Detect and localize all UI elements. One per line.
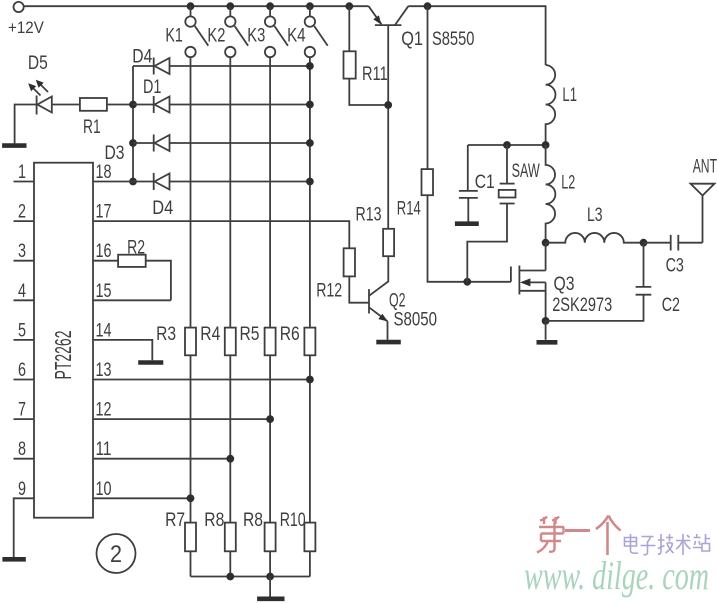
node pin12-K3 — [266, 415, 274, 423]
transistor Q2 S8050 — [349, 256, 388, 340]
svg-text:Q1: Q1 — [401, 29, 423, 50]
pin 17 wire to R12 — [93, 221, 349, 248]
diode D3 — [133, 135, 310, 152]
inductor L1 — [546, 65, 556, 145]
svg-text:R10: R10 — [280, 510, 306, 531]
resistor R7 — [185, 523, 196, 552]
switch K1 — [185, 6, 208, 57]
inductor L3 — [546, 233, 644, 243]
resistor R14 — [422, 6, 511, 282]
svg-text:13: 13 — [96, 360, 112, 381]
capacitor C2 — [636, 243, 652, 295]
svg-text:2: 2 — [110, 541, 122, 568]
wire diode bus — [132, 66, 134, 182]
ground (pin 9) — [2, 557, 25, 562]
resistor R6 — [304, 328, 315, 356]
pin 1 stub — [14, 181, 35, 183]
svg-text:5: 5 — [18, 320, 26, 341]
node bus-R1 — [129, 101, 137, 109]
resistor R5 — [265, 328, 276, 356]
pin 8 stub — [14, 458, 35, 460]
pin 6 stub — [14, 379, 35, 381]
resistor R13 — [383, 229, 394, 256]
resistor R8b — [265, 523, 276, 552]
node pin13-K4 — [306, 376, 314, 384]
svg-text:2SK2973: 2SK2973 — [552, 295, 612, 316]
pin 18 wire to bus — [93, 181, 133, 183]
wire source to C2 — [546, 295, 644, 321]
svg-text:K2: K2 — [207, 26, 225, 47]
SAW resonator — [467, 145, 515, 282]
svg-text:1: 1 — [18, 162, 26, 183]
svg-text:D5: D5 — [28, 53, 48, 74]
node bus-D3 — [129, 139, 137, 147]
svg-text:R8: R8 — [204, 510, 224, 531]
svg-text:D1: D1 — [143, 77, 161, 98]
node bus-pin18 — [129, 178, 137, 186]
antenna ANT — [691, 184, 715, 243]
svg-text:L3: L3 — [587, 205, 603, 226]
page number 2 — [97, 534, 136, 573]
node pin10-K1 — [187, 494, 195, 502]
svg-text:8: 8 — [18, 439, 26, 460]
svg-text:6: 6 — [18, 360, 26, 381]
node D1-K4 — [306, 101, 314, 109]
pin 13 wire — [93, 379, 310, 381]
svg-text:R8: R8 — [243, 510, 263, 531]
node rail-K1 — [187, 2, 195, 10]
watermark 电子技术站 — [625, 534, 711, 555]
svg-text:4: 4 — [18, 281, 26, 302]
svg-text:S8550: S8550 — [432, 29, 474, 50]
svg-text:R4: R4 — [200, 324, 220, 345]
ground (Q2) — [376, 340, 401, 345]
node L3-C3-C2 — [640, 239, 648, 247]
pin 12 wire — [93, 418, 270, 420]
node rail-R11 — [345, 2, 353, 10]
node rail-K2 — [226, 2, 234, 10]
svg-text:K3: K3 — [247, 26, 265, 47]
svg-text:16: 16 — [96, 241, 112, 262]
svg-text:R7: R7 — [165, 510, 185, 531]
node L2-L3-drain — [542, 239, 550, 247]
ground (Q3) — [537, 340, 558, 345]
resistor R11 — [344, 6, 389, 105]
svg-text:D4: D4 — [132, 47, 152, 68]
svg-text:C3: C3 — [666, 256, 684, 277]
svg-text:ANT: ANT — [693, 157, 717, 178]
pin 7 stub — [14, 418, 35, 420]
wire LED to ground — [15, 105, 37, 144]
wire R1 to bus — [107, 104, 133, 106]
wire K1 column — [190, 57, 192, 576]
svg-text:10: 10 — [96, 479, 112, 500]
wire +12V rail right segment to L1 top — [408, 6, 545, 65]
wire LED to R1 — [52, 104, 80, 106]
svg-text:12: 12 — [96, 400, 112, 421]
svg-text:18: 18 — [96, 162, 112, 183]
pin 11 wire — [93, 458, 230, 460]
resistor R3 — [185, 328, 196, 356]
LED D5 — [37, 96, 52, 115]
wire bottom to ground — [269, 577, 271, 597]
svg-text:D3: D3 — [105, 143, 125, 164]
svg-text:11: 11 — [96, 439, 112, 460]
node rail-R14 — [424, 2, 432, 10]
inductor L2 — [546, 145, 556, 243]
svg-text:R14: R14 — [397, 198, 421, 219]
svg-text:S8050: S8050 — [394, 309, 438, 330]
transistor Q1 S8550 — [369, 6, 409, 229]
svg-text:9: 9 — [18, 479, 26, 500]
svg-text:L2: L2 — [561, 173, 575, 194]
diode D4 top — [133, 58, 310, 75]
svg-text:17: 17 — [96, 202, 112, 223]
svg-text:3: 3 — [18, 241, 26, 262]
svg-text:C2: C2 — [662, 295, 680, 316]
ground (pin 14) — [138, 360, 163, 365]
svg-text:7: 7 — [18, 400, 26, 421]
LED arrows — [28, 80, 48, 96]
pin 16 wire — [93, 260, 118, 262]
svg-text:14: 14 — [96, 320, 112, 341]
node rail-K4 — [306, 2, 314, 10]
node rail-K3 — [266, 2, 274, 10]
svg-text:PT2262: PT2262 — [50, 331, 76, 380]
ground (bottom) — [257, 596, 284, 601]
node Q1 base-R11 — [384, 101, 392, 109]
node gate line-SAW — [463, 278, 471, 286]
diode D1 — [133, 96, 310, 113]
pin 3 stub — [14, 260, 35, 262]
resistor R12 — [344, 248, 355, 276]
switch K2 — [225, 6, 248, 57]
ground (C1) — [455, 221, 479, 226]
svg-text:L1: L1 — [562, 85, 577, 106]
svg-text:C1: C1 — [475, 172, 495, 193]
wire K3 column — [269, 57, 271, 576]
svg-text:R5: R5 — [240, 324, 260, 345]
node pin11-K2 — [226, 455, 234, 463]
switch K4 — [305, 6, 328, 57]
node L1-L2 — [542, 141, 550, 149]
svg-text:15: 15 — [96, 281, 112, 302]
node bottom-R8b — [266, 573, 274, 581]
MOSFET Q3 2SK2973 — [511, 243, 546, 321]
pin 9 wire to ground — [14, 498, 34, 557]
node D4b-K4 — [306, 178, 314, 186]
ground (D5) — [2, 143, 26, 148]
wire tank top — [468, 144, 546, 146]
wire R2 to pin 15 — [146, 261, 171, 301]
pin 4 stub — [14, 299, 35, 301]
resistor R1 — [80, 98, 107, 111]
resistor R4 — [225, 328, 236, 356]
watermark 第一个 — [537, 516, 621, 556]
wire K4 column — [309, 57, 311, 576]
svg-text:K1: K1 — [165, 26, 183, 47]
svg-text:D4: D4 — [152, 198, 173, 219]
pin 15 wire — [93, 299, 171, 301]
capacitor C3 — [644, 235, 703, 251]
svg-text:+12V: +12V — [8, 18, 44, 37]
svg-text:2: 2 — [18, 202, 26, 223]
pin 5 stub — [14, 339, 35, 341]
svg-text:www. dilge. com: www. dilge. com — [524, 553, 709, 598]
capacitor C1 — [459, 145, 478, 222]
node bottom-R8 — [226, 573, 234, 581]
svg-text:R2: R2 — [127, 238, 145, 259]
svg-text:R11: R11 — [362, 64, 388, 85]
node SAW top — [503, 141, 511, 149]
IC U1 PT2262 — [34, 163, 93, 518]
wire source to ground — [545, 321, 547, 340]
resistor R2 — [118, 255, 146, 267]
svg-text:R1: R1 — [83, 117, 101, 138]
svg-text:R6: R6 — [280, 324, 300, 345]
pin 2 stub — [14, 220, 35, 222]
resistor R8 — [225, 523, 236, 552]
node source — [542, 317, 550, 325]
svg-text:SAW: SAW — [512, 161, 540, 182]
node D3-K4 — [306, 139, 314, 147]
resistor R10 — [304, 523, 315, 552]
svg-text:Q2: Q2 — [389, 290, 406, 311]
wire K2 column — [229, 57, 231, 576]
wire bottom rail — [191, 576, 310, 578]
switch K3 — [265, 6, 288, 57]
diode D4 bottom — [133, 173, 310, 190]
pin 14 wire to ground — [93, 340, 152, 360]
svg-text:R13: R13 — [356, 205, 382, 226]
node D4-K4 — [306, 62, 314, 70]
svg-text:R12: R12 — [316, 281, 342, 302]
wire +12V rail left segment — [24, 5, 369, 7]
pin 10 wire — [93, 497, 191, 499]
svg-text:Q3: Q3 — [554, 274, 575, 295]
+12V terminal — [14, 2, 24, 12]
svg-text:R3: R3 — [156, 324, 176, 345]
svg-text:K4: K4 — [287, 26, 306, 47]
